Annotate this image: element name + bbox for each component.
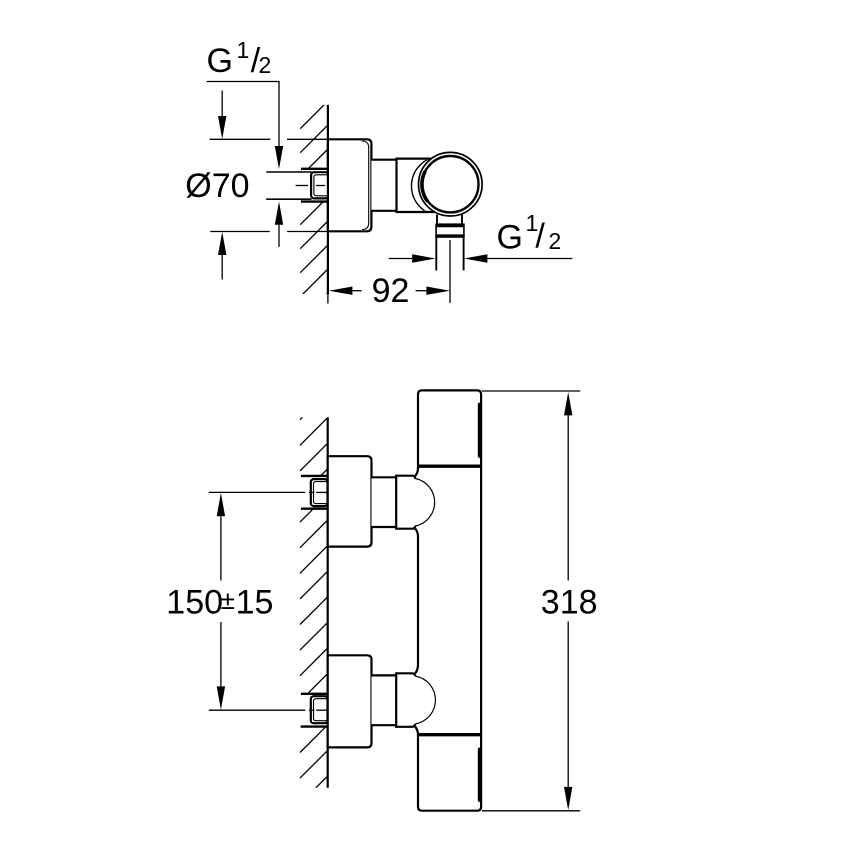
bottom fitting inner line: [314, 699, 330, 721]
pipe centerline dashes: [296, 185, 308, 187]
svg-text:Ø70: Ø70: [185, 167, 249, 205]
wall hatching (front view): [300, 392, 328, 829]
top escutcheon (front view): [328, 456, 372, 546]
bottom escutcheon (front view): [328, 655, 372, 747]
svg-text:/: /: [535, 218, 545, 256]
supply pipe stub bottom line: [266, 198, 311, 200]
escutcheon (side view): [328, 139, 372, 231]
handle base (side view): [397, 159, 440, 212]
outlet neck below handle: [436, 215, 438, 225]
318-dim bottom extension: [482, 810, 580, 812]
handle outer circle: [419, 152, 483, 216]
dia70 up arrow: [218, 232, 226, 255]
150-dim bottom extension / centerline: [209, 709, 305, 711]
valve body stub (side view): [371, 160, 396, 211]
svg-text:2: 2: [259, 52, 272, 78]
outlet nut: [436, 224, 464, 237]
wall hole edge (bottom): [301, 200, 329, 202]
dia70 extension line bottom: [210, 231, 269, 233]
150-dim top extension / centerline: [209, 491, 305, 493]
318-dim top extension: [482, 390, 580, 392]
top cap separator line: [418, 465, 481, 468]
bottom union neck: [372, 675, 397, 725]
handle back plate circle (crescent behind handle): [412, 156, 472, 216]
top union nut: [396, 476, 416, 529]
dia70 down arrow: [221, 91, 223, 117]
top cap shading bar: [478, 405, 482, 456]
wall hole edge (top): [301, 168, 329, 170]
pipe fitting inner line: [314, 175, 329, 196]
top wall fitting square: [311, 479, 328, 506]
pipe fitting square (in wall): [311, 172, 328, 198]
top union neck: [372, 477, 397, 527]
bottom union nut: [396, 673, 416, 727]
supply pipe stub top line: [266, 171, 311, 173]
svg-text:318: 318: [541, 583, 598, 621]
svg-text:150: 150: [166, 584, 223, 622]
top union bulge curve: [415, 479, 434, 527]
svg-text:1: 1: [237, 37, 250, 63]
outlet pipe centerline / 92-dim extension: [449, 240, 451, 303]
318-dim up arrow: [564, 392, 572, 415]
G1/2 leader up arrow: [275, 202, 283, 225]
bottom union bulge curve: [415, 676, 435, 724]
dim 92 line right part: [426, 287, 450, 295]
svg-text:92: 92: [372, 272, 410, 310]
body outline (outer, with union gaps on left): [415, 390, 481, 810]
150-dim down arrow: [217, 686, 225, 709]
wall line (top view): [327, 105, 329, 294]
dia70 extension line top: [210, 138, 271, 140]
escutcheon inner rim line: [362, 141, 369, 230]
wall line thin extension to 92-dim: [327, 294, 329, 304]
svg-text:15: 15: [236, 584, 274, 622]
svg-text:G: G: [207, 42, 233, 80]
svg-text:±: ±: [221, 585, 235, 615]
318-dim down arrow: [564, 787, 572, 810]
bottom cap separator line: [418, 733, 481, 736]
150-dim up arrow: [217, 493, 225, 516]
bottom wall fitting square: [311, 696, 328, 723]
hole edges bottom fitting: [301, 693, 329, 695]
handle inner circle left shading arc: [422, 171, 428, 201]
svg-text:G: G: [497, 218, 523, 256]
outlet pipe walls: [435, 237, 437, 270]
top fitting inner line: [314, 482, 330, 504]
G1/2 outlet dim arrows: [389, 258, 413, 260]
handle inner circle: [422, 156, 478, 212]
wall line (front view): [327, 417, 329, 787]
dim 92 line left part: [329, 287, 353, 295]
G1/2 leader down arrow: [275, 146, 283, 169]
svg-text:2: 2: [549, 228, 562, 254]
body column fill: [418, 390, 481, 810]
bottom cap shading bar: [478, 750, 482, 801]
G1/2 leader underline: [207, 82, 279, 147]
body left edge between unions: [415, 529, 418, 674]
hole edges top fitting: [301, 475, 329, 477]
wall hatching (top view): [300, 77, 328, 345]
